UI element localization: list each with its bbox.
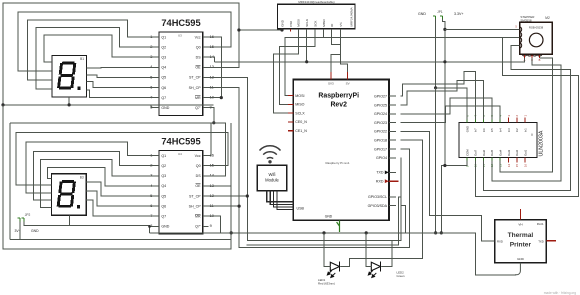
- svg-text:MRF24J40(breadboardable): MRF24J40(breadboardable): [298, 0, 334, 4]
- svg-text:Vcc: Vcc: [195, 154, 201, 158]
- wire LED1 cathode to GPIO18: [341, 140, 423, 266]
- wire net chip2 Q2 wrap: [34, 151, 154, 200]
- svg-text:15: 15: [210, 163, 214, 168]
- svg-text:Port1: Port1: [537, 222, 544, 226]
- svg-text:CE0_N: CE0_N: [295, 120, 307, 124]
- svg-text:Q2: Q2: [161, 45, 166, 49]
- svg-text:Green: Green: [397, 274, 405, 278]
- svg-text:M2: M2: [545, 16, 550, 20]
- svg-text:SCLK: SCLK: [305, 19, 309, 27]
- wire left outer vertical: [2, 105, 4, 249]
- svg-text:GPIO25: GPIO25: [374, 103, 387, 107]
- RaspberryPi USB pins: [292, 202, 294, 210]
- svg-text:2: 2: [150, 163, 152, 168]
- wire display B1 common to GND rail: [68, 97, 70, 105]
- wire Out6 wrap to stepper left pin3: [484, 46, 571, 191]
- svg-text:GPIO17: GPIO17: [374, 147, 387, 151]
- svg-text:GND: GND: [31, 229, 39, 233]
- svg-text:In2: In2: [515, 128, 519, 132]
- wire chip2 MR to rail: [209, 216, 221, 233]
- svg-text:5: 5: [150, 193, 152, 198]
- svg-text:SH_CP: SH_CP: [189, 86, 202, 90]
- LED LED1 red: [318, 262, 340, 286]
- svg-text:GPIO3/SDA: GPIO3/SDA: [368, 204, 388, 208]
- junction COM-3.3V: [443, 164, 446, 167]
- svg-text:Out3: Out3: [507, 149, 511, 156]
- svg-text:OE: OE: [195, 184, 201, 188]
- wire long 3.3V line to stepper: [215, 58, 525, 62]
- svg-text:16: 16: [210, 153, 214, 158]
- wire WiFi module pin 1 to RPi: [267, 191, 294, 202]
- wire WiFi module pin 3 to RPi: [274, 191, 294, 207]
- wire SCL line left: [247, 197, 401, 245]
- wire GPIO23 to ULN In4: [400, 106, 500, 123]
- svg-text:Q7: Q7: [161, 96, 166, 100]
- svg-text:Q3: Q3: [161, 174, 166, 178]
- svg-text:1: 1: [150, 153, 152, 158]
- svg-text:MR: MR: [195, 215, 201, 219]
- svg-text:Rev2: Rev2: [330, 102, 347, 109]
- svg-text:B1: B1: [80, 57, 84, 61]
- svg-text:GND: GND: [280, 19, 284, 27]
- wire SH_CP bus chip1+chip2: [209, 88, 410, 248]
- svg-text:ST_CP: ST_CP: [189, 76, 201, 80]
- wire display B1 right pin a to chip1 Q4: [87, 66, 154, 69]
- wire GND rail under display B1: [3, 104, 214, 106]
- wire LED1 anode: [324, 233, 330, 267]
- svg-text:6: 6: [150, 203, 152, 208]
- svg-text:3: 3: [150, 54, 152, 59]
- shift register U4 74HC595 (bottom): [150, 137, 215, 234]
- svg-text:Q5: Q5: [161, 76, 166, 80]
- wire LED2 anode: [366, 233, 371, 267]
- RF module U2 MRF24J40: [278, 0, 355, 32]
- wire WiFi module pin 2 to RPi: [270, 191, 293, 205]
- wire WiFi module pin 4 to RPi: [277, 191, 293, 210]
- svg-text:ST_CP: ST_CP: [189, 194, 201, 198]
- svg-text:V½: V½: [339, 22, 343, 27]
- wire chip1 DS to long line: [209, 57, 215, 62]
- wire display B1 right pin c to chip1 Q6: [87, 82, 154, 88]
- wire net Q3 wrap chip1 pin3 to display B1 top-left: [44, 35, 154, 62]
- wire MRF Vin to SV3: [331, 29, 341, 72]
- svg-text:VH: VH: [518, 222, 522, 226]
- wire GPIO22 to printer RXD: [400, 131, 494, 240]
- svg-text:14: 14: [507, 164, 511, 168]
- svg-text:GPIO18: GPIO18: [374, 139, 387, 143]
- wire net chip2 Q0 wrap over top: [16, 132, 228, 185]
- svg-text:Thermal: Thermal: [508, 232, 534, 239]
- RaspberryPi GND lead (green): [337, 220, 340, 232]
- junction MRF GND: [280, 28, 283, 31]
- junction 3.3V stepper tap: [443, 28, 446, 31]
- wire net chip2 Q1 wrap: [26, 142, 154, 193]
- wire MRF MISO down to RPi MOSI: [285, 29, 323, 96]
- svg-text:CS0: CS0: [289, 21, 293, 27]
- svg-text:2: 2: [150, 44, 152, 49]
- junction GND main rail: [434, 231, 437, 234]
- svg-text:RXD: RXD: [497, 239, 503, 243]
- wire printer GND lead: [515, 263, 520, 275]
- svg-text:Q6: Q6: [161, 204, 166, 208]
- thermal printer P1: [495, 209, 557, 263]
- svg-text:SM3558: SM3558: [520, 18, 532, 22]
- 7-segment display B1 (top): [52, 56, 87, 98]
- svg-text:SCK: SCK: [313, 21, 317, 27]
- wire SDA to main rail: [400, 206, 405, 233]
- svg-text:ROB-09238: ROB-09238: [529, 26, 544, 30]
- svg-text:MOSI: MOSI: [297, 19, 301, 27]
- svg-text:8: 8: [150, 223, 152, 228]
- LED LED2 green: [368, 262, 405, 278]
- svg-text:Vcc: Vcc: [195, 35, 201, 39]
- svg-text:USB: USB: [297, 206, 305, 210]
- svg-text:GND: GND: [325, 215, 333, 219]
- wire x10 rail to OE vertical: [10, 239, 231, 241]
- svg-text:GND: GND: [517, 257, 525, 261]
- wire GPIO25 to ULN In6: [400, 80, 483, 119]
- svg-text:Module: Module: [265, 178, 279, 183]
- single-board computer U1 RaspberryPi Rev2: [288, 72, 389, 220]
- svg-text:Q5: Q5: [161, 194, 166, 198]
- junction 3.3V center-tap: [443, 60, 446, 63]
- svg-text:GND: GND: [161, 106, 169, 110]
- svg-text:7: 7: [150, 95, 152, 100]
- svg-text:SCLX: SCLX: [295, 111, 305, 115]
- wire net chip2 Q4 wrap top-left entry: [48, 168, 154, 186]
- svg-text:Red (633nm): Red (633nm): [318, 281, 335, 285]
- svg-text:15: 15: [210, 44, 214, 49]
- watermark: [544, 291, 576, 295]
- wire MRF GND to OE bus: [239, 29, 282, 31]
- 7-segment display B3 (bottom): [52, 174, 87, 216]
- wire chip2 OE tap: [209, 185, 232, 187]
- svg-text:Q7: Q7: [161, 215, 166, 219]
- svg-text:Q3: Q3: [161, 56, 166, 60]
- svg-text:5: 5: [150, 74, 152, 79]
- svg-text:GPIO3/SCL: GPIO3/SCL: [368, 195, 387, 199]
- svg-text:3: 3: [150, 173, 152, 178]
- svg-text:13: 13: [210, 64, 214, 69]
- darlington driver IC2 ULN2003A: [459, 115, 545, 168]
- wire LED2 cathode to rail: [382, 241, 393, 267]
- svg-text:MRF24J40MA: MRF24J40MA: [350, 7, 354, 26]
- svg-text:Q0: Q0: [196, 164, 201, 168]
- svg-text:In7: In7: [474, 128, 478, 132]
- header JP1 (GND / 3.3V+): [418, 10, 464, 19]
- svg-text:Out2: Out2: [515, 149, 519, 156]
- svg-text:Printer: Printer: [510, 241, 532, 248]
- RaspberryPi GPIO pins right: [374, 95, 396, 161]
- junction MR1 on Vcc bus: [220, 96, 223, 99]
- svg-text:GND: GND: [465, 126, 469, 132]
- svg-text:16: 16: [210, 34, 214, 39]
- svg-text:MOSI: MOSI: [295, 94, 304, 98]
- svg-text:74HC595: 74HC595: [161, 18, 200, 28]
- wire display B1 right pin dp to chip1 Q7: [87, 90, 154, 98]
- wire Out7 wrap to stepper left pin2: [475, 38, 578, 197]
- wire chip2 GND to rail: [150, 225, 154, 227]
- svg-text:Q1: Q1: [161, 154, 166, 158]
- wire GPIO27 to ULN In7: [400, 72, 475, 120]
- svg-text:16: 16: [523, 164, 527, 168]
- wire GND to ULN pin8: [436, 88, 467, 120]
- wire MRF SCLK down to long line: [306, 29, 308, 62]
- svg-text:made with · fritzing.org: made with · fritzing.org: [544, 291, 576, 295]
- svg-text:GND: GND: [418, 12, 426, 16]
- svg-text:Q6: Q6: [161, 86, 166, 90]
- wire ULN COM down to rail: [441, 161, 467, 233]
- wire net Q2 wrap chip1 pin2 to display B1: [36, 28, 154, 90]
- svg-text:DS: DS: [196, 56, 202, 60]
- svg-text:Out1: Out1: [523, 149, 527, 156]
- svg-text:RaspberryPi: RaspberryPi: [318, 92, 359, 99]
- wire ST_CP chip2 tap: [209, 195, 248, 197]
- junction cascade node: [212, 121, 215, 124]
- junction SH_CP chip2: [238, 205, 241, 208]
- wire JP1 GND down to main rail: [435, 88, 437, 233]
- svg-text:Wifi: Wifi: [269, 172, 276, 177]
- svg-text:Out4: Out4: [499, 149, 503, 156]
- svg-text:1: 1: [150, 34, 152, 39]
- shift register U3 74HC595 (top): [150, 18, 215, 115]
- wire MRF IO to SV4: [332, 29, 348, 72]
- wire JP2 3V+ pin down: [19, 221, 21, 239]
- svg-text:DS: DS: [196, 174, 202, 178]
- svg-text:Q0: Q0: [196, 45, 201, 49]
- wire MRF SCK down to RPi MISO: [279, 29, 315, 105]
- svg-text:13: 13: [210, 183, 214, 188]
- wire Out5 wrap to stepper bottom C: [492, 58, 561, 181]
- junction OE bus MRF tap: [237, 28, 240, 31]
- wire display B3 common down: [68, 215, 70, 225]
- svg-text:In3: In3: [507, 128, 511, 132]
- WiFi module A1 box: [257, 165, 287, 191]
- svg-text:GPIO27: GPIO27: [374, 95, 387, 99]
- svg-text:12: 12: [210, 193, 214, 198]
- svg-text:Q1: Q1: [161, 35, 166, 39]
- wire net chip2 Q3 wrap: [41, 160, 154, 208]
- svg-text:ULN2003A: ULN2003A: [539, 130, 545, 156]
- svg-text:IC: IC: [530, 133, 534, 136]
- svg-text:GPIO4: GPIO4: [376, 156, 387, 160]
- wire cascade line to chip2 DS: [10, 123, 226, 176]
- svg-text:In4: In4: [499, 128, 503, 132]
- stepper motor M2 SM3558: [515, 15, 552, 62]
- wire net Q0-OE top outer loop (OE1 to left rail): [3, 3, 239, 105]
- svg-text:CE1_N: CE1_N: [295, 129, 307, 133]
- header JP2 (3V+ / GND): [15, 213, 40, 233]
- wire MRF MOSI down to RPi SCLX: [273, 29, 298, 113]
- svg-text:11: 11: [210, 84, 214, 89]
- svg-text:MISO: MISO: [295, 103, 304, 107]
- wire chip2 Vcc up to cascade line: [209, 123, 211, 156]
- svg-text:Out7: Out7: [474, 149, 478, 156]
- svg-text:B3: B3: [80, 176, 84, 180]
- wire Out4 wrap to stepper bottom B: [500, 58, 552, 172]
- wire display B1 right pin b to chip1 Q5: [87, 75, 154, 77]
- svg-text:U4: U4: [178, 152, 182, 156]
- RaspberryPi I2C pins: [368, 195, 396, 208]
- svg-text:RXD: RXD: [376, 180, 384, 184]
- svg-text:3.3V+: 3.3V+: [454, 12, 464, 16]
- wire left vertical x10 to bottom rail: [9, 123, 11, 240]
- svg-text:Q4: Q4: [161, 66, 166, 70]
- svg-text:Q4: Q4: [161, 184, 166, 188]
- svg-text:GPIO23: GPIO23: [374, 121, 387, 125]
- svg-text:In5: In5: [490, 128, 494, 132]
- svg-text:B: B: [539, 58, 541, 62]
- wire GPIO24 to ULN In5: [400, 98, 492, 119]
- svg-text:TXD: TXD: [538, 239, 544, 243]
- svg-text:OE: OE: [195, 66, 201, 70]
- svg-text:74HC595: 74HC595: [161, 137, 200, 147]
- svg-text:MR: MR: [195, 96, 201, 100]
- svg-text:In6: In6: [482, 128, 486, 132]
- wire net Q1 wrap chip1 pin1 to display B1: [28, 20, 154, 80]
- svg-text:11: 11: [210, 203, 214, 208]
- wire JP1 3.3V down: [442, 19, 445, 166]
- svg-text:Q2: Q2: [161, 164, 166, 168]
- RaspberryPi RXD pin (unconnected): [376, 179, 399, 183]
- svg-text:In1: In1: [523, 128, 527, 132]
- wire chip1 Q7' cascade down: [209, 108, 214, 123]
- svg-text:Raspberry Pi rev1: Raspberry Pi rev1: [325, 161, 349, 165]
- junction left rail corner: [1, 103, 4, 106]
- junction display B1 common: [68, 103, 71, 106]
- junction LED1 anode: [322, 231, 325, 234]
- wire chip1 MR tap: [209, 97, 222, 99]
- svg-text:12: 12: [210, 74, 214, 79]
- RaspberryPi TXD pin: [376, 171, 396, 175]
- wire SH_CP chip2 tap: [209, 205, 240, 207]
- junction GND-ULN tap: [434, 86, 437, 89]
- svg-text:Q7': Q7': [195, 225, 201, 229]
- wire display B3 right a to chip2 Q5: [86, 182, 153, 196]
- wire display B3 right c to chip2 Q7: [86, 200, 153, 216]
- svg-text:MISO: MISO: [322, 18, 326, 26]
- svg-text:JP2: JP2: [25, 213, 31, 217]
- svg-text:7: 7: [150, 213, 152, 218]
- wire JP1 GND down: [435, 19, 437, 88]
- svg-text:Out6: Out6: [482, 149, 486, 156]
- svg-text:COM: COM: [465, 149, 469, 156]
- wire net Q0 wrap (pin15 chip1 over top to display): [18, 12, 231, 71]
- wire display B3 right b to chip2 Q6: [86, 191, 153, 206]
- junction LED2 anode: [365, 231, 368, 234]
- svg-text:Out5: Out5: [490, 149, 494, 156]
- junction COM rail: [440, 231, 443, 234]
- junction chip2 GND tap: [148, 225, 151, 228]
- wire chip1 Vcc bus down to MR1: [209, 37, 222, 98]
- wire 3.3V to stepper left pin1: [445, 28, 519, 30]
- wire main GND rail: [150, 233, 517, 275]
- svg-text:SV: SV: [346, 82, 350, 86]
- svg-text:TXD: TXD: [376, 171, 384, 175]
- wire ST_CP bus chip1+chip2: [209, 77, 401, 240]
- junction ST_CP chip2: [246, 194, 249, 197]
- svg-text:SV3: SV3: [328, 82, 334, 86]
- svg-text:JP1: JP1: [437, 10, 443, 14]
- svg-text:GPIO24: GPIO24: [374, 112, 387, 116]
- svg-text:Q7': Q7': [195, 106, 201, 110]
- svg-text:SH_CP: SH_CP: [189, 204, 202, 208]
- wire local GND rail bottom-left: [24, 221, 150, 233]
- junction MRF SCLK on long line: [305, 60, 308, 63]
- svg-text:GND: GND: [161, 225, 169, 229]
- svg-text:9: 9: [210, 223, 212, 228]
- wire chip2 OE down through rail to outer loop: [3, 123, 232, 249]
- svg-text:6: 6: [150, 84, 152, 89]
- wire chip1 GND to rail: [151, 105, 154, 108]
- junction chip2 OE rail: [230, 231, 233, 234]
- svg-text:15: 15: [515, 164, 519, 168]
- wire stepper phase line from MRF region: [323, 37, 519, 39]
- svg-text:GPIO22: GPIO22: [374, 130, 387, 134]
- WiFi antenna icon: [260, 146, 281, 164]
- svg-text:U3: U3: [178, 33, 182, 37]
